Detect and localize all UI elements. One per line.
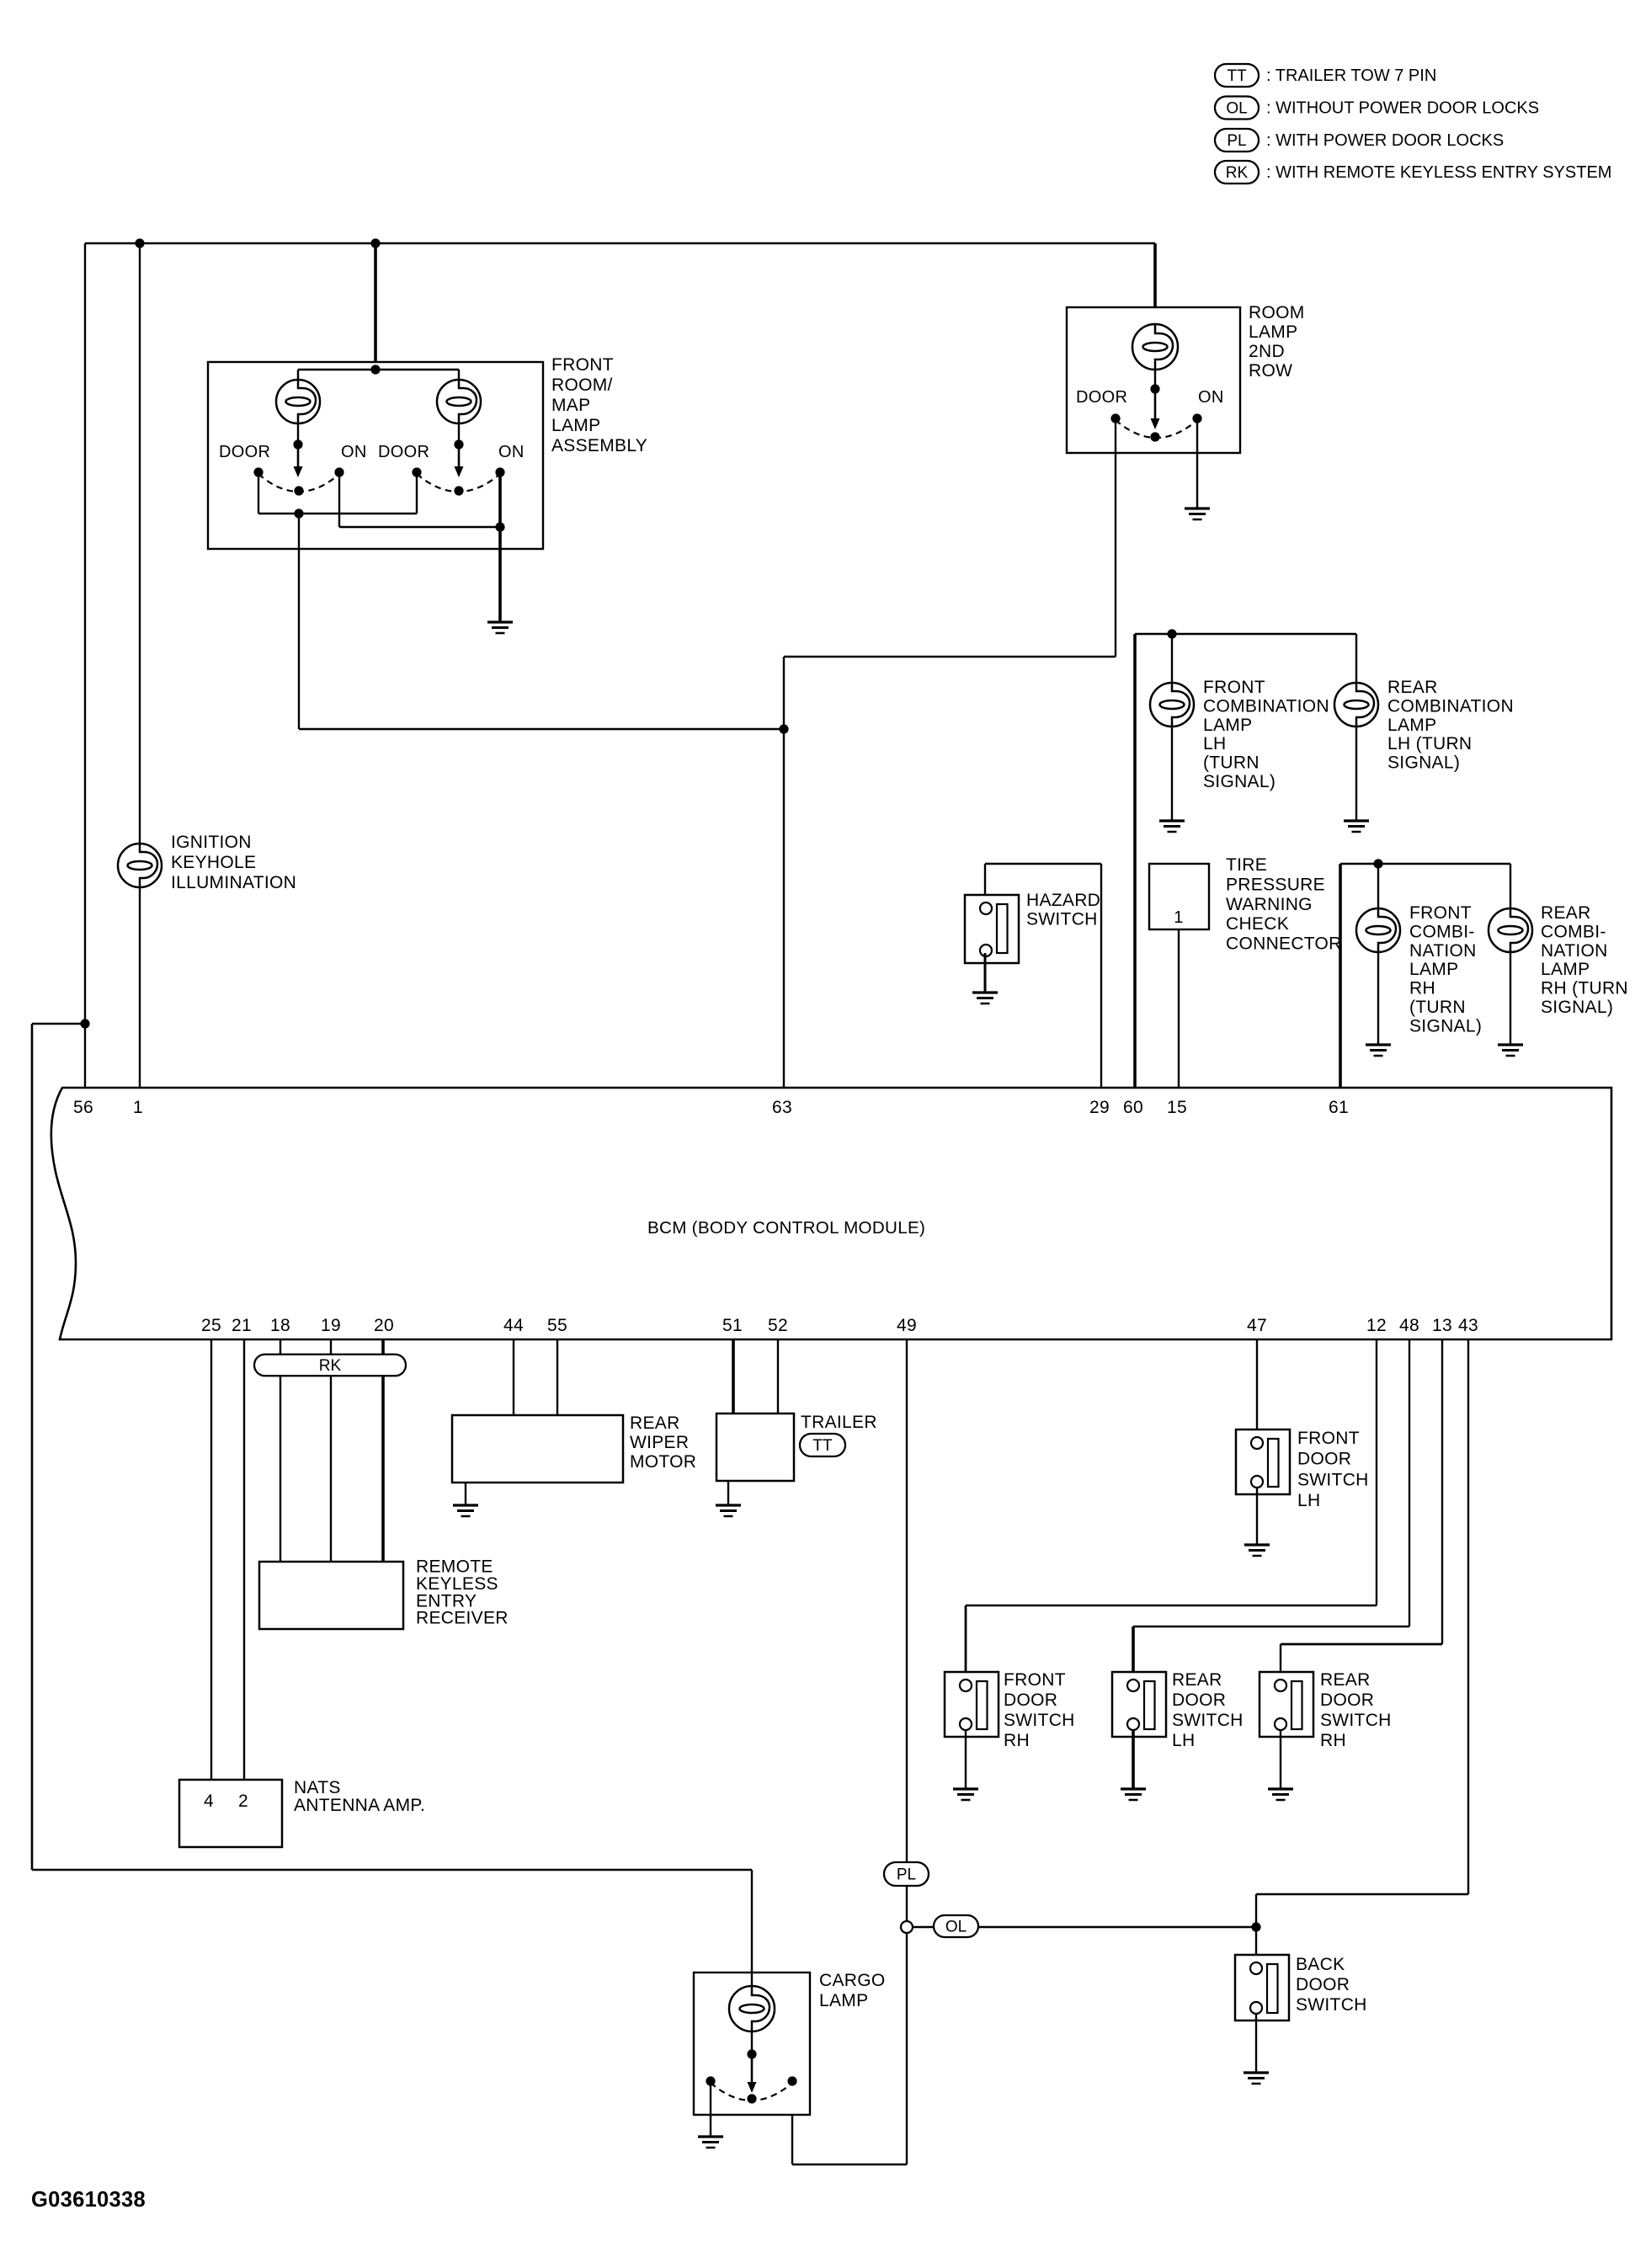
svg-text:NATION: NATION bbox=[1541, 941, 1608, 961]
label FRONT DOOR SWITCH LH bbox=[1297, 1429, 1369, 1510]
pin 4 NATS bbox=[204, 1792, 214, 1811]
svg-text:COMBI-: COMBI- bbox=[1409, 922, 1475, 941]
junction front combination LH bbox=[1167, 629, 1176, 638]
svg-text:LAMP: LAMP bbox=[1409, 960, 1458, 979]
wire room bulb drop bbox=[1154, 324, 1156, 391]
node ON contact left switch bbox=[334, 467, 344, 476]
svg-text:REAR: REAR bbox=[1541, 903, 1591, 923]
wire top power rail bbox=[85, 242, 1155, 245]
lamp cargo bbox=[729, 1986, 775, 2031]
svg-text:SWITCH: SWITCH bbox=[1026, 910, 1098, 929]
wire hazard switch to pin 29 bbox=[985, 864, 1101, 1088]
ground trailer bbox=[716, 1505, 741, 1516]
room lamp 2nd row box bbox=[1067, 307, 1240, 453]
wire rear comb LH ground leg bbox=[1355, 725, 1357, 821]
rear wiper motor box bbox=[452, 1415, 623, 1483]
wire pin 20 drop bbox=[381, 1339, 385, 1562]
front door switch LH bbox=[1236, 1429, 1290, 1494]
svg-text:DOOR: DOOR bbox=[219, 443, 270, 461]
svg-text:51: 51 bbox=[722, 1316, 743, 1335]
cargo lamp box bbox=[694, 1973, 810, 2115]
svg-text:(TURN: (TURN bbox=[1409, 998, 1466, 1017]
wire front comb RH ground leg bbox=[1377, 950, 1379, 1045]
svg-text:CONNECTOR: CONNECTOR bbox=[1226, 934, 1342, 954]
wire pin 44 drop bbox=[513, 1339, 514, 1415]
label FRONT DOOR SWITCH RH bbox=[1004, 1670, 1075, 1750]
label REAR WIPER MOTOR bbox=[630, 1414, 696, 1472]
svg-text:43: 43 bbox=[1458, 1316, 1478, 1335]
ground rear door switch LH bbox=[1121, 1789, 1146, 1800]
label REAR COMBINATION LAMP LH bbox=[1387, 678, 1514, 773]
node DOOR contact left switch bbox=[253, 467, 263, 476]
svg-text:LH: LH bbox=[1297, 1491, 1320, 1510]
svg-text:1: 1 bbox=[133, 1098, 143, 1117]
switch wiper dot left bbox=[294, 486, 303, 495]
svg-text:SWITCH: SWITCH bbox=[1172, 1711, 1244, 1730]
svg-text:1: 1 bbox=[1174, 908, 1183, 927]
switch dashed arc cargo bbox=[711, 2083, 792, 2100]
label ON right bbox=[498, 443, 525, 461]
wire rear comb LH drop bbox=[1355, 634, 1357, 684]
pin 15 BCM top bbox=[1167, 1098, 1187, 1117]
svg-text:LAMP: LAMP bbox=[819, 1991, 868, 2010]
switch dashed arc room lamp bbox=[1116, 420, 1197, 438]
svg-text:PRESSURE: PRESSURE bbox=[1226, 875, 1325, 894]
svg-text:BACK: BACK bbox=[1296, 1955, 1345, 1974]
wire map lamp ON ground leg bbox=[498, 472, 502, 622]
svg-text:NATION: NATION bbox=[1409, 941, 1477, 961]
node DOOR contact room lamp bbox=[1110, 413, 1120, 423]
ground rear combination lamp RH bbox=[1498, 1045, 1523, 1056]
wire room lamp 2nd row feed bbox=[1153, 243, 1157, 370]
svg-text:DOOR: DOOR bbox=[1296, 1975, 1350, 1994]
pin 13 BCM bottom bbox=[1432, 1316, 1452, 1335]
svg-text:SIGNAL): SIGNAL) bbox=[1203, 772, 1276, 791]
svg-text:FRONT: FRONT bbox=[1297, 1429, 1360, 1448]
svg-text:RH: RH bbox=[1409, 979, 1435, 998]
junction below right bulb bbox=[454, 439, 463, 449]
pin 2 NATS bbox=[238, 1792, 248, 1811]
wire cargo bulb drop bbox=[751, 1973, 753, 2056]
wire pin 61 riser bbox=[1339, 864, 1342, 1088]
wire rear comb RH ground leg bbox=[1510, 950, 1511, 1045]
ground back door switch bbox=[1244, 2073, 1269, 2084]
svg-text:ROW: ROW bbox=[1249, 361, 1292, 381]
figure id G03610338 bbox=[31, 2188, 146, 2212]
wire left bulb drop bbox=[297, 370, 299, 446]
wire front comb LH drop bbox=[1171, 634, 1173, 684]
wire rear door LH ground leg bbox=[1132, 1730, 1135, 1789]
node open junction OL bbox=[901, 1921, 913, 1933]
svg-text:FRONT: FRONT bbox=[551, 355, 614, 375]
label CARGO LAMP bbox=[819, 1971, 886, 2010]
svg-text:63: 63 bbox=[772, 1098, 792, 1117]
pin 51 BCM bottom bbox=[722, 1316, 743, 1335]
svg-text:CARGO: CARGO bbox=[819, 1971, 886, 1990]
lamp rear combination LH bbox=[1334, 683, 1378, 727]
junction on rail at pin-1 riser bbox=[135, 238, 144, 248]
pin 48 BCM bottom bbox=[1399, 1316, 1419, 1335]
wire pin 52 drop bbox=[777, 1339, 779, 1414]
wire pin 18 drop bbox=[280, 1339, 281, 1562]
svg-text:COMBINATION: COMBINATION bbox=[1387, 696, 1514, 716]
wire room lamp ON ground leg bbox=[1196, 418, 1198, 508]
svg-text:DOOR: DOOR bbox=[378, 443, 429, 461]
svg-text:COMBINATION: COMBINATION bbox=[1203, 696, 1329, 716]
wire pin 49 drop bbox=[906, 1339, 908, 1921]
label ON left bbox=[341, 443, 367, 461]
svg-text:RH: RH bbox=[1004, 1731, 1030, 1750]
svg-text:REAR: REAR bbox=[1387, 678, 1438, 697]
svg-text:55: 55 bbox=[547, 1316, 567, 1335]
NATS antenna amp box bbox=[179, 1780, 282, 1847]
wire rear wiper ground leg bbox=[465, 1483, 466, 1505]
pin 43 BCM bottom bbox=[1458, 1316, 1478, 1335]
pin 1 BCM top bbox=[133, 1098, 143, 1117]
back door switch bbox=[1235, 1955, 1289, 2020]
svg-text:: TRAILER TOW 7 PIN: : TRAILER TOW 7 PIN bbox=[1266, 67, 1436, 85]
legend tag OL bbox=[1215, 97, 1259, 120]
svg-text:G03610338: G03610338 bbox=[31, 2188, 146, 2212]
ground front door switch RH bbox=[953, 1789, 978, 1800]
svg-text:21: 21 bbox=[232, 1316, 252, 1335]
ground map lamp bbox=[487, 622, 513, 633]
node ON contact right switch bbox=[495, 467, 504, 476]
junction below room bulb bbox=[1150, 384, 1159, 393]
option tag OL bbox=[934, 1915, 978, 1937]
svg-text:DOOR: DOOR bbox=[1004, 1690, 1057, 1710]
label REMOTE KEYLESS ENTRY RECEIVER bbox=[416, 1557, 509, 1628]
ground front door switch LH bbox=[1244, 1545, 1270, 1556]
switch wiper dot cargo bbox=[747, 2094, 756, 2103]
svg-text:MAP: MAP bbox=[551, 396, 590, 415]
pin 49 BCM bottom bbox=[897, 1316, 917, 1335]
svg-text:KEYHOLE: KEYHOLE bbox=[171, 853, 256, 872]
svg-text:FRONT: FRONT bbox=[1004, 1670, 1066, 1690]
svg-text:TT: TT bbox=[812, 1437, 833, 1455]
junction door bus output bbox=[294, 508, 303, 518]
svg-text:ON: ON bbox=[1198, 388, 1224, 407]
wire BCM pin 1 riser bbox=[139, 243, 141, 1088]
svg-text:12: 12 bbox=[1366, 1316, 1387, 1335]
svg-text:LH (TURN: LH (TURN bbox=[1387, 734, 1472, 753]
option tag TT trailer bbox=[800, 1434, 845, 1456]
svg-text:DOOR: DOOR bbox=[1320, 1690, 1374, 1710]
lamp rear combination RH bbox=[1489, 908, 1532, 952]
wire cargo ground leg bbox=[710, 2081, 711, 2137]
svg-text:ROOM/: ROOM/ bbox=[551, 375, 613, 395]
remote keyless entry receiver box bbox=[259, 1562, 403, 1629]
svg-text:HAZARD: HAZARD bbox=[1026, 891, 1100, 910]
label TRAILER bbox=[801, 1413, 877, 1432]
svg-text:LAMP: LAMP bbox=[1541, 960, 1590, 979]
wire OL horizontal bbox=[913, 1926, 1256, 1928]
wire left DOOR contact drop bbox=[258, 472, 259, 514]
svg-text:ASSEMBLY: ASSEMBLY bbox=[551, 436, 647, 455]
svg-text:: WITHOUT POWER DOOR LOCKS: : WITHOUT POWER DOOR LOCKS bbox=[1266, 99, 1539, 118]
svg-text:61: 61 bbox=[1329, 1098, 1349, 1117]
svg-text:REAR: REAR bbox=[630, 1414, 680, 1433]
label FRONT ROOM/MAP LAMP ASSEMBLY bbox=[551, 355, 647, 455]
switch dashed arc right bbox=[417, 474, 500, 492]
svg-text:SIGNAL): SIGNAL) bbox=[1387, 753, 1460, 773]
node DOOR contact right switch bbox=[412, 467, 421, 476]
junction back door switch feed bbox=[1251, 1922, 1260, 1931]
svg-text:COMBI-: COMBI- bbox=[1541, 922, 1606, 941]
svg-text:OL: OL bbox=[1226, 100, 1247, 118]
svg-text:RK: RK bbox=[1226, 164, 1249, 182]
ground rear wiper motor bbox=[453, 1505, 478, 1516]
tire pressure warning check connector box bbox=[1149, 864, 1209, 929]
svg-text:29: 29 bbox=[1089, 1098, 1110, 1117]
wire cargo lamp branch bbox=[32, 1024, 752, 1988]
wire combination LH bus bbox=[1135, 633, 1356, 635]
junction map lamp feed to bus bbox=[370, 365, 380, 374]
legend text WITH REMOTE KEYLESS ENTRY SYSTEM bbox=[1266, 163, 1611, 182]
label FRONT COMBINATION LAMP LH bbox=[1203, 678, 1329, 791]
wire front comb RH drop bbox=[1377, 864, 1379, 910]
pin 63 BCM top bbox=[772, 1098, 792, 1117]
svg-text:WARNING: WARNING bbox=[1226, 895, 1313, 914]
wire pin 12 to front door switch RH bbox=[966, 1339, 1377, 1680]
node ON contact room lamp bbox=[1192, 413, 1201, 423]
svg-text:RK: RK bbox=[319, 1357, 342, 1375]
front room/map lamp assembly box bbox=[208, 362, 543, 549]
junction below cargo bulb bbox=[747, 2049, 756, 2058]
label BCM (BODY CONTROL MODULE) bbox=[647, 1218, 925, 1238]
switch dashed arc left bbox=[258, 474, 339, 492]
svg-text:60: 60 bbox=[1123, 1098, 1143, 1117]
wire map lamp feed bbox=[374, 243, 377, 370]
ground rear combination lamp LH bbox=[1344, 821, 1369, 832]
wire hazard ground leg bbox=[984, 953, 987, 993]
svg-text:LAMP: LAMP bbox=[1203, 716, 1252, 735]
svg-text:44: 44 bbox=[503, 1316, 524, 1335]
junction below left bulb bbox=[293, 439, 302, 449]
switch arrow left bbox=[294, 445, 303, 477]
svg-text:WIPER: WIPER bbox=[630, 1433, 689, 1452]
svg-text:PL: PL bbox=[897, 1866, 916, 1884]
svg-text:PL: PL bbox=[1227, 132, 1246, 150]
switch wiper dot right bbox=[454, 486, 463, 495]
junction pin63 wire and map lamp door output bbox=[779, 724, 788, 733]
svg-text:FRONT: FRONT bbox=[1203, 678, 1265, 697]
svg-text:(TURN: (TURN bbox=[1203, 753, 1260, 773]
legend tag RK bbox=[1215, 161, 1259, 184]
svg-text:SWITCH: SWITCH bbox=[1320, 1711, 1392, 1730]
svg-text:OL: OL bbox=[945, 1919, 967, 1936]
wire pin 60 riser bbox=[1133, 634, 1137, 1088]
wire BCM pin 56 riser bbox=[84, 243, 86, 1088]
wire right DOOR contact drop bbox=[416, 472, 418, 514]
svg-text:IGNITION: IGNITION bbox=[171, 833, 252, 852]
pin 20 BCM bottom bbox=[374, 1316, 394, 1335]
svg-text:4: 4 bbox=[204, 1792, 214, 1811]
svg-text:SWITCH: SWITCH bbox=[1004, 1711, 1075, 1730]
svg-text:TT: TT bbox=[1227, 67, 1247, 85]
pin 1 tire connector bbox=[1174, 908, 1183, 927]
pin 56 BCM top bbox=[73, 1098, 93, 1117]
front door switch RH bbox=[945, 1672, 999, 1737]
pin 52 BCM bottom bbox=[768, 1316, 788, 1335]
switch wiper dot room lamp bbox=[1150, 432, 1159, 441]
wire map lamp internal bus bbox=[298, 369, 459, 370]
ground front combination lamp RH bbox=[1366, 1045, 1391, 1056]
wire pin 55 drop bbox=[557, 1339, 558, 1415]
lamp right bulb bbox=[437, 380, 481, 423]
wire pin 47 drop bbox=[1256, 1339, 1258, 1437]
lamp front combination LH bbox=[1150, 683, 1194, 727]
wire pin 25 drop bbox=[210, 1339, 212, 1780]
svg-text:ON: ON bbox=[341, 443, 367, 461]
label NATS ANTENNA AMP. bbox=[294, 1778, 425, 1815]
label HAZARD SWITCH bbox=[1026, 891, 1100, 929]
junction pin56 riser to cargo branch bbox=[80, 1019, 89, 1028]
label DOOR left bbox=[219, 443, 270, 461]
junction ON bus to ground leg bbox=[495, 522, 504, 531]
label DOOR right bbox=[378, 443, 429, 461]
svg-text:SWITCH: SWITCH bbox=[1296, 1995, 1367, 2015]
wire front door RH ground leg bbox=[965, 1730, 967, 1789]
junction on rail at map lamp feed bbox=[370, 238, 380, 248]
lamp room 2nd row bulb bbox=[1132, 324, 1178, 370]
label REAR COMBI-NATION LAMP RH bbox=[1541, 903, 1628, 1017]
wire tire connector to pin 15 bbox=[1178, 929, 1180, 1088]
rear door switch RH bbox=[1260, 1672, 1313, 1737]
svg-text:LAMP: LAMP bbox=[551, 416, 600, 435]
legend text WITHOUT POWER DOOR LOCKS bbox=[1266, 99, 1539, 118]
pin 12 BCM bottom bbox=[1366, 1316, 1387, 1335]
wire pin 51 drop bbox=[732, 1339, 735, 1414]
svg-text:REAR: REAR bbox=[1172, 1670, 1222, 1690]
pin 60 BCM top bbox=[1123, 1098, 1143, 1117]
ground front combination lamp LH bbox=[1159, 821, 1185, 832]
pin 18 BCM bottom bbox=[270, 1316, 290, 1335]
ground room lamp bbox=[1185, 508, 1210, 519]
svg-text:25: 25 bbox=[201, 1316, 221, 1335]
legend text WITH POWER DOOR LOCKS bbox=[1266, 131, 1504, 150]
svg-text:TRAILER: TRAILER bbox=[801, 1413, 877, 1432]
svg-text:LH: LH bbox=[1203, 734, 1226, 753]
svg-text:ROOM: ROOM bbox=[1249, 303, 1305, 322]
wire open junction to cargo lamp bbox=[792, 1933, 907, 2164]
svg-text:MOTOR: MOTOR bbox=[630, 1452, 696, 1472]
svg-text:2: 2 bbox=[238, 1792, 248, 1811]
pin 21 BCM bottom bbox=[232, 1316, 252, 1335]
junction front combination RH bbox=[1373, 859, 1382, 868]
pin 19 BCM bottom bbox=[321, 1316, 341, 1335]
svg-text:20: 20 bbox=[374, 1316, 394, 1335]
lamp front combination RH bbox=[1356, 908, 1400, 952]
svg-text:2ND: 2ND bbox=[1249, 342, 1285, 361]
label REAR DOOR SWITCH LH bbox=[1172, 1670, 1244, 1750]
svg-text:19: 19 bbox=[321, 1316, 341, 1335]
svg-text:: WITH REMOTE KEYLESS ENTRY SY: : WITH REMOTE KEYLESS ENTRY SYSTEM bbox=[1266, 163, 1611, 182]
pin 29 BCM top bbox=[1089, 1098, 1110, 1117]
BCM (body control module) box bbox=[51, 1088, 1611, 1339]
svg-text:LAMP: LAMP bbox=[1249, 322, 1297, 342]
legend tag TT bbox=[1215, 64, 1259, 87]
label IGNITION KEYHOLE ILLUMINATION bbox=[171, 833, 296, 892]
wire pin 13 to rear door switch RH bbox=[1281, 1339, 1442, 1680]
wire pin 43 to back door switch bbox=[1256, 1339, 1468, 1955]
wire right bulb drop bbox=[458, 370, 460, 446]
svg-text:ILLUMINATION: ILLUMINATION bbox=[171, 873, 296, 892]
svg-text:18: 18 bbox=[270, 1316, 290, 1335]
label ON room lamp bbox=[1198, 388, 1224, 407]
svg-text:FRONT: FRONT bbox=[1409, 903, 1472, 923]
svg-text:REAR: REAR bbox=[1320, 1670, 1371, 1690]
svg-text:56: 56 bbox=[73, 1098, 93, 1117]
label TIRE PRESSURE WARNING CHECK CONNECTOR bbox=[1226, 855, 1342, 954]
label REAR DOOR SWITCH RH bbox=[1320, 1670, 1392, 1750]
label DOOR room lamp bbox=[1076, 388, 1127, 407]
svg-text:13: 13 bbox=[1432, 1316, 1452, 1335]
label ROOM LAMP 2ND ROW bbox=[1249, 303, 1305, 381]
svg-text:RH: RH bbox=[1320, 1731, 1346, 1750]
node right contact cargo switch bbox=[787, 2076, 796, 2085]
svg-text:SWITCH: SWITCH bbox=[1297, 1470, 1369, 1489]
lamp ignition keyhole illumination bbox=[118, 844, 162, 887]
svg-text:47: 47 bbox=[1247, 1316, 1267, 1335]
svg-text:CHECK: CHECK bbox=[1226, 914, 1289, 934]
wire rear door RH ground leg bbox=[1280, 1730, 1281, 1789]
label BACK DOOR SWITCH bbox=[1296, 1955, 1367, 2015]
svg-text:: WITH POWER DOOR LOCKS: : WITH POWER DOOR LOCKS bbox=[1266, 131, 1504, 150]
wire pin 21 drop bbox=[243, 1339, 245, 1780]
svg-text:49: 49 bbox=[897, 1316, 917, 1335]
trailer box bbox=[716, 1414, 794, 1481]
legend tag PL bbox=[1215, 129, 1259, 152]
option tag PL bbox=[884, 1862, 929, 1886]
option tag RK bbox=[254, 1355, 406, 1376]
wire pin 48 to rear door switch LH bbox=[1133, 1339, 1409, 1680]
wire map lamp door output bbox=[299, 514, 784, 729]
svg-text:SIGNAL): SIGNAL) bbox=[1541, 998, 1613, 1017]
svg-text:ANTENNA AMP.: ANTENNA AMP. bbox=[294, 1796, 425, 1815]
svg-text:TIRE: TIRE bbox=[1226, 855, 1267, 875]
wire trailer ground leg bbox=[727, 1481, 729, 1505]
pin 55 BCM bottom bbox=[547, 1316, 567, 1335]
pin 61 BCM top bbox=[1329, 1098, 1349, 1117]
label FRONT COMBI-NATION LAMP RH bbox=[1409, 903, 1482, 1036]
svg-text:LAMP: LAMP bbox=[1387, 716, 1436, 735]
node left contact cargo switch bbox=[706, 2076, 715, 2085]
pin 44 BCM bottom bbox=[503, 1316, 524, 1335]
svg-text:BCM (BODY CONTROL MODULE): BCM (BODY CONTROL MODULE) bbox=[647, 1218, 925, 1238]
switch arrow cargo bbox=[748, 2054, 757, 2093]
svg-text:RH (TURN: RH (TURN bbox=[1541, 979, 1628, 998]
ground cargo lamp bbox=[698, 2137, 723, 2148]
svg-text:52: 52 bbox=[768, 1316, 788, 1335]
rear door switch LH bbox=[1112, 1672, 1166, 1737]
svg-text:SIGNAL): SIGNAL) bbox=[1409, 1016, 1482, 1036]
wire room lamp DOOR to pin 63 bbox=[784, 418, 1116, 1088]
wire front door LH ground leg bbox=[1256, 1488, 1258, 1545]
svg-text:LH: LH bbox=[1172, 1731, 1195, 1750]
svg-text:ON: ON bbox=[498, 443, 525, 461]
ground rear door switch RH bbox=[1268, 1789, 1293, 1800]
wire door bus inside box bbox=[258, 513, 417, 514]
svg-text:NATS: NATS bbox=[294, 1778, 341, 1797]
switch arrow room lamp bbox=[1151, 389, 1160, 429]
ground hazard switch bbox=[972, 993, 998, 1004]
wire ON bus inside box bbox=[339, 472, 500, 527]
svg-text:15: 15 bbox=[1167, 1098, 1187, 1117]
wire combination RH bus bbox=[1340, 863, 1510, 865]
svg-text:RECEIVER: RECEIVER bbox=[416, 1609, 509, 1628]
pin 25 BCM bottom bbox=[201, 1316, 221, 1335]
